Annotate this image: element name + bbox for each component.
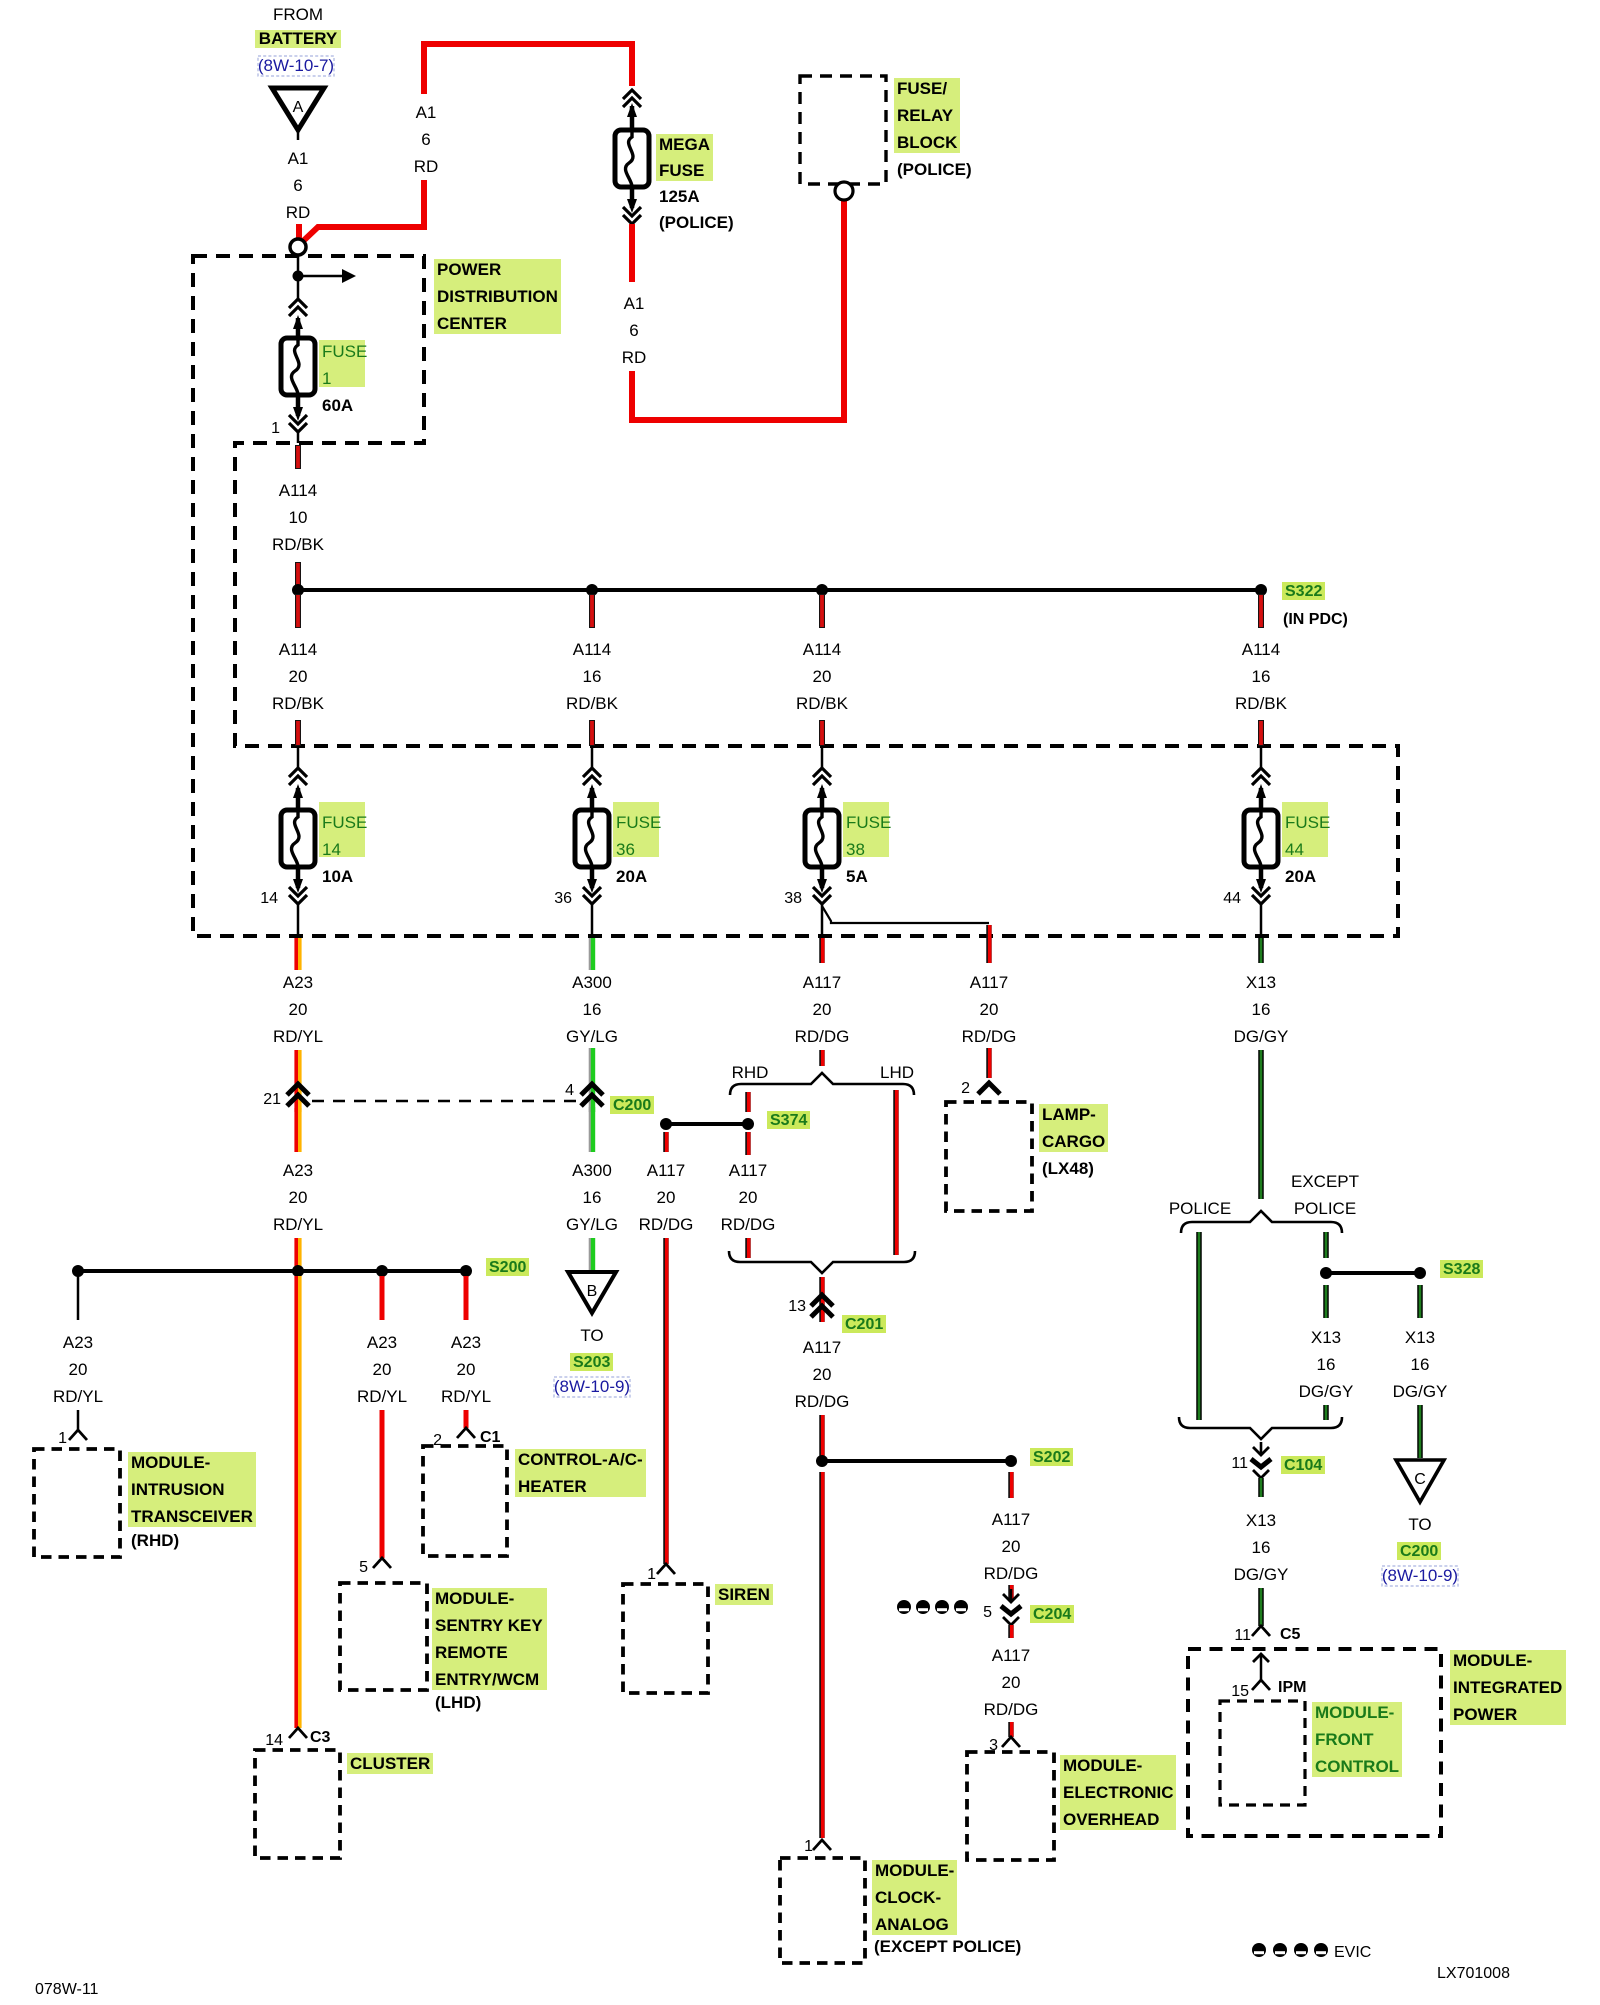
svg-text:11: 11 xyxy=(1231,1455,1248,1472)
svg-text:14: 14 xyxy=(260,890,278,907)
splice S200 bus xyxy=(72,1265,472,1277)
svg-text:(POLICE): (POLICE) xyxy=(897,160,972,179)
footer sheet number xyxy=(35,1981,99,1998)
svg-text:16: 16 xyxy=(1252,1000,1271,1019)
svg-text:S322: S322 xyxy=(1285,583,1322,600)
svg-text:POLICE: POLICE xyxy=(1294,1199,1356,1218)
splice circle at PDC entry xyxy=(290,239,306,255)
mega fuse connector chevrons (in) xyxy=(623,90,641,107)
svg-text:60A: 60A xyxy=(322,396,353,415)
svg-text:13: 13 xyxy=(788,1298,806,1315)
wire A114 20 RD/BK drop at x=822 xyxy=(796,594,849,746)
module LAMP-CARGO labels xyxy=(1039,1104,1108,1178)
pin 38 of fuse F38 xyxy=(784,890,802,907)
svg-text:RD/DG: RD/DG xyxy=(721,1215,776,1234)
svg-text:FROM: FROM xyxy=(273,5,323,24)
module MODULE-SENTRY KEY box xyxy=(340,1583,427,1690)
svg-text:LAMP-: LAMP- xyxy=(1042,1105,1096,1124)
connector pin 1 clock xyxy=(804,1838,831,1855)
svg-text:5: 5 xyxy=(359,1559,368,1576)
svg-text:RD/BK: RD/BK xyxy=(566,694,619,713)
svg-text:RD/BK: RD/BK xyxy=(1235,694,1288,713)
svg-text:20: 20 xyxy=(289,667,308,686)
svg-text:11: 11 xyxy=(1234,1627,1251,1644)
svg-text:A300: A300 xyxy=(572,1161,612,1180)
svg-text:15: 15 xyxy=(1231,1683,1249,1700)
svg-text:(8W-10-7): (8W-10-7) xyxy=(258,56,334,75)
splice S328 xyxy=(1320,1267,1426,1279)
module MODULE-ELECTRONIC OVERHEAD box xyxy=(967,1752,1054,1860)
svg-text:MODULE-: MODULE- xyxy=(875,1861,954,1880)
connector C1 pin 2 xyxy=(433,1428,500,1449)
svg-text:FUSE/: FUSE/ xyxy=(897,79,947,98)
connector C204 label xyxy=(1030,1605,1074,1623)
svg-text:A23: A23 xyxy=(283,973,313,992)
svg-text:5A: 5A xyxy=(846,867,868,886)
svg-text:38: 38 xyxy=(846,840,865,859)
svg-text:S374: S374 xyxy=(770,1112,807,1129)
svg-text:ELECTRONIC: ELECTRONIC xyxy=(1063,1783,1174,1802)
module CONTROL-A/C-HEATER labels xyxy=(515,1449,646,1497)
svg-text:SENTRY KEY: SENTRY KEY xyxy=(435,1616,543,1635)
svg-text:RD/DG: RD/DG xyxy=(795,1027,850,1046)
svg-text:6: 6 xyxy=(293,176,302,195)
wire X13 16 DG/GY to IPM xyxy=(1234,1511,1289,1626)
svg-text:RD: RD xyxy=(414,157,439,176)
svg-text:RD/YL: RD/YL xyxy=(273,1027,323,1046)
splice S374 xyxy=(660,1118,754,1130)
mega fuse MEGA FUSE 125A (POLICE) xyxy=(615,103,734,232)
svg-text:MEGA: MEGA xyxy=(659,135,710,154)
svg-text:FRONT: FRONT xyxy=(1315,1730,1374,1749)
wire X13 16 DG/GY below S328 left xyxy=(1299,1285,1354,1420)
svg-text:A114: A114 xyxy=(279,640,317,659)
wire LHD branch xyxy=(893,1090,899,1255)
fuse F14 10A xyxy=(281,746,367,936)
svg-text:20: 20 xyxy=(289,1000,308,1019)
svg-text:CLOCK-: CLOCK- xyxy=(875,1888,941,1907)
svg-text:A1: A1 xyxy=(288,149,309,168)
svg-text:6: 6 xyxy=(421,130,430,149)
svg-text:RD/YL: RD/YL xyxy=(53,1387,103,1406)
splice S202 label xyxy=(1030,1448,1073,1466)
wire RHD stub xyxy=(745,1092,751,1112)
svg-text:RD/BK: RD/BK xyxy=(272,535,325,554)
wire A117 20 RD/DG below C201 xyxy=(795,1338,850,1458)
connector C204 pin 5 xyxy=(983,1589,1021,1638)
svg-text:GY/LG: GY/LG xyxy=(566,1027,618,1046)
svg-text:RD: RD xyxy=(286,203,311,222)
svg-text:CONTROL-A/C-: CONTROL-A/C- xyxy=(518,1450,643,1469)
svg-text:CLUSTER: CLUSTER xyxy=(350,1754,430,1773)
EVIC bundle xyxy=(1252,1943,1371,1961)
svg-text:10A: 10A xyxy=(322,867,353,886)
wire A117 20 RD/DG right of S202 xyxy=(984,1472,1039,1600)
connector C200 pin 21 (col A23) xyxy=(263,1084,309,1108)
svg-text:DG/GY: DG/GY xyxy=(1299,1382,1354,1401)
svg-text:C5: C5 xyxy=(1280,1626,1301,1643)
splice S322 bus xyxy=(292,584,1267,596)
wire A23 20 RD/YL to intrusion module xyxy=(53,1271,103,1430)
splice S200 label xyxy=(486,1258,529,1276)
svg-text:RD/YL: RD/YL xyxy=(441,1387,491,1406)
svg-text:20: 20 xyxy=(457,1360,476,1379)
svg-text:21: 21 xyxy=(263,1091,281,1108)
wire red to mega fuse xyxy=(629,44,635,86)
svg-text:A23: A23 xyxy=(63,1333,93,1352)
wire A117 20 RD/DG below fuse 38 xyxy=(795,938,850,1066)
connector pin 1 intrusion xyxy=(58,1430,87,1447)
footer drawing number xyxy=(1437,1965,1510,1982)
module MODULE-SENTRY KEY labels xyxy=(432,1588,547,1712)
dashed link C200 xyxy=(312,1100,578,1103)
wire except-police stub xyxy=(1323,1232,1329,1258)
svg-text:36: 36 xyxy=(554,890,572,907)
svg-text:A1: A1 xyxy=(416,103,437,122)
svg-text:C200: C200 xyxy=(1400,1543,1438,1560)
off-page connector B xyxy=(568,1272,616,1313)
module LAMP-CARGO (LX48) box xyxy=(946,1102,1032,1211)
off-page connector A (from battery) xyxy=(272,88,324,140)
svg-text:TRANSCEIVER: TRANSCEIVER xyxy=(131,1507,253,1526)
svg-text:20: 20 xyxy=(813,667,832,686)
svg-text:RELAY: RELAY xyxy=(897,106,954,125)
svg-text:(LX48): (LX48) xyxy=(1042,1159,1094,1178)
brace RHD/LHD split xyxy=(730,1073,914,1095)
svg-text:S200: S200 xyxy=(489,1259,526,1276)
svg-text:A: A xyxy=(293,99,304,116)
wire A117 20 RD/DG to clock module xyxy=(819,1472,825,1838)
svg-text:20: 20 xyxy=(1002,1537,1021,1556)
brace join to C104 xyxy=(1179,1417,1342,1439)
svg-text:BATTERY: BATTERY xyxy=(259,29,338,48)
wire A23 20 RD/YL below C200 xyxy=(273,1108,323,1266)
svg-text:20: 20 xyxy=(289,1188,308,1207)
wire A117 20 RD/DG RHD branch xyxy=(721,1132,776,1258)
pin 36 of fuse F36 xyxy=(554,890,572,907)
module MODULE-FRONT CONTROL labels xyxy=(1312,1702,1402,1777)
fuse F38 5A xyxy=(805,746,891,936)
svg-text:1: 1 xyxy=(322,369,331,388)
svg-text:DG/GY: DG/GY xyxy=(1234,1027,1289,1046)
svg-text:RD/DG: RD/DG xyxy=(984,1700,1039,1719)
connector pin 3 overhead xyxy=(989,1737,1020,1754)
svg-text:X13: X13 xyxy=(1246,973,1276,992)
svg-text:A117: A117 xyxy=(992,1646,1030,1665)
wire A1 6 RD below mega fuse xyxy=(622,200,844,420)
svg-text:A117: A117 xyxy=(992,1510,1030,1529)
svg-text:20A: 20A xyxy=(1285,867,1316,886)
svg-text:POLICE: POLICE xyxy=(1169,1199,1231,1218)
svg-text:POWER: POWER xyxy=(437,260,501,279)
svg-text:078W-11: 078W-11 xyxy=(35,1981,99,1998)
wire A23 20 RD/YL to cluster xyxy=(296,1276,300,1728)
svg-text:C: C xyxy=(1414,1471,1426,1488)
svg-text:FUSE: FUSE xyxy=(322,342,367,361)
svg-text:ENTRY/WCM: ENTRY/WCM xyxy=(435,1670,539,1689)
svg-text:A114: A114 xyxy=(803,640,841,659)
wire A300 16 GY/LG below C200 xyxy=(566,1107,618,1272)
module MODULE-INTEGRATED POWER labels xyxy=(1450,1650,1566,1725)
svg-text:20: 20 xyxy=(813,1365,832,1384)
module MODULE-INTEGRATED POWER box xyxy=(1188,1649,1441,1836)
connector IPM pin 15 xyxy=(1231,1654,1306,1700)
svg-text:14: 14 xyxy=(265,1732,283,1749)
module MODULE-INTRUSION TRANSCEIVER labels xyxy=(128,1452,256,1550)
svg-text:CONTROL: CONTROL xyxy=(1315,1757,1399,1776)
module MODULE-ELECTRONIC OVERHEAD labels xyxy=(1060,1755,1176,1830)
svg-text:POWER: POWER xyxy=(1453,1705,1517,1724)
connector C201 pin 13 xyxy=(788,1277,833,1322)
svg-text:20: 20 xyxy=(739,1188,758,1207)
svg-text:INTEGRATED: INTEGRATED xyxy=(1453,1678,1562,1697)
svg-text:(POLICE): (POLICE) xyxy=(659,213,734,232)
svg-text:125A: 125A xyxy=(659,187,700,206)
wire A114 20 RD/BK drop at x=298 xyxy=(272,594,325,746)
wire A114 10 RD/BK xyxy=(272,445,325,586)
svg-text:BLOCK: BLOCK xyxy=(897,133,958,152)
wire A114 16 RD/BK drop at x=1261 xyxy=(1235,594,1288,746)
connector pin 2 lamp-cargo xyxy=(961,1080,1000,1097)
svg-text:(LHD): (LHD) xyxy=(435,1693,481,1712)
bundle dots xyxy=(897,1600,968,1614)
wire battery feed red (A1 6 RD) to splice circle xyxy=(299,44,635,244)
connector C5 pin 11 xyxy=(1234,1626,1300,1644)
svg-text:20: 20 xyxy=(657,1188,676,1207)
module MODULE-INTRUSION TRANSCEIVER box xyxy=(34,1449,120,1557)
wire A23 20 RD/YL to a/c heater control xyxy=(441,1276,491,1428)
svg-text:44: 44 xyxy=(1285,840,1304,859)
svg-text:A23: A23 xyxy=(367,1333,397,1352)
svg-text:(EXCEPT POLICE): (EXCEPT POLICE) xyxy=(874,1937,1021,1956)
svg-text:C1: C1 xyxy=(480,1429,501,1446)
svg-text:20A: 20A xyxy=(616,867,647,886)
POLICE / EXCEPT POLICE labels xyxy=(1169,1172,1359,1218)
connector pin 1 siren xyxy=(647,1564,675,1583)
svg-text:RD/DG: RD/DG xyxy=(962,1027,1017,1046)
power distribution center labels xyxy=(434,259,561,334)
svg-text:A300: A300 xyxy=(572,973,612,992)
module CLUSTER label xyxy=(347,1753,433,1774)
svg-text:DG/GY: DG/GY xyxy=(1234,1565,1289,1584)
svg-text:TO: TO xyxy=(580,1326,603,1345)
connector C3 pin 14 xyxy=(265,1728,330,1749)
power distribution center dashed outline xyxy=(193,256,1398,936)
svg-text:A114: A114 xyxy=(1242,640,1280,659)
module SIREN label xyxy=(715,1584,773,1605)
fuse F36 20A xyxy=(575,746,661,936)
svg-text:44: 44 xyxy=(1223,890,1241,907)
svg-text:2: 2 xyxy=(961,1080,970,1097)
svg-text:16: 16 xyxy=(1252,1538,1271,1557)
svg-text:MODULE-: MODULE- xyxy=(1453,1651,1532,1670)
svg-text:MODULE-: MODULE- xyxy=(1063,1756,1142,1775)
connector C200 label xyxy=(610,1096,654,1114)
module MODULE-CLOCK-ANALOG box xyxy=(780,1858,865,1963)
svg-text:INTRUSION: INTRUSION xyxy=(131,1480,225,1499)
svg-text:A114: A114 xyxy=(279,481,317,500)
svg-text:OVERHEAD: OVERHEAD xyxy=(1063,1810,1159,1829)
svg-text:FUSE: FUSE xyxy=(659,161,704,180)
module MODULE-FRONT CONTROL box xyxy=(1220,1701,1305,1805)
svg-text:20: 20 xyxy=(813,1000,832,1019)
fuse F1 60A xyxy=(281,299,367,432)
svg-text:5: 5 xyxy=(983,1604,992,1621)
svg-text:X13: X13 xyxy=(1311,1328,1341,1347)
svg-text:16: 16 xyxy=(583,1188,602,1207)
svg-text:GY/LG: GY/LG xyxy=(566,1215,618,1234)
pin 14 of fuse F14 xyxy=(260,890,278,907)
wire X13 16 DG/GY below S328 right xyxy=(1393,1285,1448,1458)
svg-text:RD/YL: RD/YL xyxy=(273,1215,323,1234)
svg-text:IPM: IPM xyxy=(1278,1679,1306,1696)
module SIREN box xyxy=(623,1584,708,1693)
svg-text:S202: S202 xyxy=(1033,1449,1070,1466)
wire A117 20 RD/DG to siren xyxy=(639,1132,694,1564)
svg-text:6: 6 xyxy=(629,321,638,340)
svg-text:20: 20 xyxy=(373,1360,392,1379)
svg-text:RD: RD xyxy=(622,348,647,367)
svg-text:1: 1 xyxy=(647,1566,656,1583)
off-page connector C xyxy=(1396,1460,1444,1502)
svg-text:ANALOG: ANALOG xyxy=(875,1915,949,1934)
svg-text:16: 16 xyxy=(1411,1355,1430,1374)
svg-text:A117: A117 xyxy=(729,1161,767,1180)
svg-text:38: 38 xyxy=(784,890,802,907)
module CLUSTER box xyxy=(255,1750,340,1858)
svg-text:RD/BK: RD/BK xyxy=(272,694,325,713)
svg-text:DG/GY: DG/GY xyxy=(1393,1382,1448,1401)
svg-text:FUSE: FUSE xyxy=(616,813,661,832)
wire A1 6 RD label (battery drop) xyxy=(286,149,311,222)
splice S374 label xyxy=(767,1111,810,1129)
svg-text:C200: C200 xyxy=(613,1097,651,1114)
svg-text:1: 1 xyxy=(271,420,280,437)
svg-text:36: 36 xyxy=(616,840,635,859)
TO S203 (8W-10-9) xyxy=(554,1326,630,1397)
svg-text:HEATER: HEATER xyxy=(518,1477,587,1496)
svg-text:(8W-10-9): (8W-10-9) xyxy=(1382,1566,1458,1585)
wire police branch DG/GY xyxy=(1196,1232,1202,1420)
connector C200 pin 4 (col A300) xyxy=(565,1082,603,1106)
wire A300 16 GY/LG below fuse 36 xyxy=(566,938,618,1112)
splice S322 label (IN PDC) xyxy=(1282,582,1348,628)
svg-text:CARGO: CARGO xyxy=(1042,1132,1105,1151)
svg-text:A117: A117 xyxy=(647,1161,685,1180)
svg-text:EVIC: EVIC xyxy=(1334,1944,1371,1961)
brace police split xyxy=(1181,1211,1342,1233)
connector C201 label xyxy=(842,1315,886,1333)
svg-text:(8W-10-9): (8W-10-9) xyxy=(554,1377,630,1396)
svg-text:A1: A1 xyxy=(624,294,645,313)
wire A23 20 RD/YL below fuse 14 xyxy=(273,938,323,1112)
svg-text:(RHD): (RHD) xyxy=(131,1531,179,1550)
svg-text:RD/DG: RD/DG xyxy=(795,1392,850,1411)
svg-text:C201: C201 xyxy=(845,1316,883,1333)
svg-text:FUSE: FUSE xyxy=(322,813,367,832)
svg-text:20: 20 xyxy=(980,1000,999,1019)
svg-text:LX701008: LX701008 xyxy=(1437,1965,1510,1982)
svg-text:A117: A117 xyxy=(970,973,1008,992)
wire A1 6 RD label (riser) xyxy=(414,103,439,176)
svg-text:B: B xyxy=(587,1283,598,1300)
svg-text:16: 16 xyxy=(583,667,602,686)
svg-text:C3: C3 xyxy=(310,1729,331,1746)
brace join to C201 xyxy=(729,1251,915,1273)
svg-text:MODULE-: MODULE- xyxy=(435,1589,514,1608)
wire branch from fuse F38 to lamp-cargo column xyxy=(822,906,989,923)
svg-text:A23: A23 xyxy=(283,1161,313,1180)
RHD / LHD labels xyxy=(732,1063,914,1082)
svg-text:16: 16 xyxy=(1252,667,1271,686)
splice S202 xyxy=(816,1455,1017,1467)
svg-text:S203: S203 xyxy=(573,1354,610,1371)
connector pin 5 sentry xyxy=(359,1558,391,1576)
svg-text:A23: A23 xyxy=(451,1333,481,1352)
node junction + arrow inside PDC xyxy=(293,255,357,300)
svg-text:FUSE: FUSE xyxy=(1285,813,1330,832)
svg-text:10: 10 xyxy=(289,508,308,527)
svg-text:LHD: LHD xyxy=(880,1063,914,1082)
connector C104 label xyxy=(1281,1456,1325,1474)
svg-text:20: 20 xyxy=(1002,1673,1021,1692)
svg-text:A117: A117 xyxy=(803,973,841,992)
svg-text:(IN PDC): (IN PDC) xyxy=(1283,611,1348,628)
svg-text:EXCEPT: EXCEPT xyxy=(1291,1172,1359,1191)
svg-text:A117: A117 xyxy=(803,1338,841,1357)
svg-text:CENTER: CENTER xyxy=(437,314,507,333)
svg-text:RD/DG: RD/DG xyxy=(639,1215,694,1234)
fuse/relay block (police) box xyxy=(800,76,886,200)
pin 44 of fuse F44 xyxy=(1223,890,1241,907)
fuse/relay block labels xyxy=(894,78,972,179)
svg-text:FUSE: FUSE xyxy=(846,813,891,832)
svg-text:RD/YL: RD/YL xyxy=(357,1387,407,1406)
wire A117 20 RD/DG lamp-cargo branch xyxy=(962,925,1017,1078)
wire A117 20 RD/DG to overhead module xyxy=(984,1646,1039,1737)
svg-text:DISTRIBUTION: DISTRIBUTION xyxy=(437,287,558,306)
svg-text:C204: C204 xyxy=(1033,1606,1071,1623)
connector C104 pin 11 xyxy=(1231,1442,1271,1497)
svg-text:RD/BK: RD/BK xyxy=(796,694,849,713)
svg-text:RHD: RHD xyxy=(732,1063,769,1082)
svg-text:16: 16 xyxy=(583,1000,602,1019)
wire X13 16 DG/GY below fuse 44 xyxy=(1234,938,1289,1199)
svg-text:4: 4 xyxy=(565,1082,574,1099)
node FROM BATTERY label xyxy=(255,5,341,76)
wire A114 16 RD/BK drop at x=592 xyxy=(566,594,619,746)
wire A23 20 RD/YL to sentry key module xyxy=(357,1276,407,1558)
module MODULE-CLOCK-ANALOG labels xyxy=(872,1860,1021,1956)
svg-text:S328: S328 xyxy=(1443,1261,1480,1278)
svg-text:X13: X13 xyxy=(1246,1511,1276,1530)
svg-text:A114: A114 xyxy=(573,640,611,659)
svg-text:MODULE-: MODULE- xyxy=(1315,1703,1394,1722)
pin 1 of fuse F1 xyxy=(271,420,298,443)
svg-text:1: 1 xyxy=(804,1838,813,1855)
svg-text:1: 1 xyxy=(58,1430,67,1447)
TO C200 (8W-10-9) xyxy=(1382,1515,1458,1586)
svg-text:16: 16 xyxy=(1317,1355,1336,1374)
svg-text:C104: C104 xyxy=(1284,1457,1322,1474)
svg-text:14: 14 xyxy=(322,840,341,859)
fuse F44 20A xyxy=(1244,746,1330,936)
svg-text:REMOTE: REMOTE xyxy=(435,1643,508,1662)
svg-text:RD/DG: RD/DG xyxy=(984,1564,1039,1583)
svg-text:20: 20 xyxy=(69,1360,88,1379)
svg-text:SIREN: SIREN xyxy=(718,1585,770,1604)
svg-text:MODULE-: MODULE- xyxy=(131,1453,210,1472)
